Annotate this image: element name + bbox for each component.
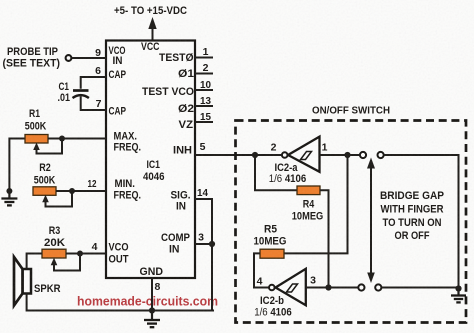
wire probe tip to pin 9 xyxy=(72,57,106,59)
node probe tip terminal circle xyxy=(66,55,72,61)
node junction right bus ground xyxy=(455,285,461,291)
pin 2 stub xyxy=(195,73,213,75)
resistor R4 xyxy=(297,186,320,195)
node junction IC2-a output / R5 feedback xyxy=(344,152,350,158)
ON/OFF SWITCH dashed enclosure xyxy=(236,121,467,323)
R4 labels xyxy=(292,199,324,223)
ground right bus xyxy=(451,289,466,303)
resistor R1 labels xyxy=(25,108,47,133)
op-amp U2a: inverter IC2-a xyxy=(282,137,320,172)
wire pin 6 stub xyxy=(81,77,106,89)
ground center below pin 8 xyxy=(144,311,160,328)
wire IC2-a output down to R5 xyxy=(284,155,348,253)
pin 10 stub xyxy=(195,89,213,91)
node top touch contact left xyxy=(360,152,366,158)
wire R1 wiper arm xyxy=(33,141,62,154)
resistor R3 labels xyxy=(44,225,65,249)
node junction R2 wiper xyxy=(69,188,75,194)
wire R2 to MIN FREQ pin 12 xyxy=(56,190,106,192)
resistor R5 xyxy=(260,249,284,258)
node junction IC2-b output / R4 xyxy=(325,284,331,290)
speaker SPKR xyxy=(14,257,31,306)
node bottom touch contact right xyxy=(375,284,381,290)
wire R3 wiper arm xyxy=(51,256,80,271)
wire IC2-a output to top contact xyxy=(320,154,360,156)
IC1 internal labels xyxy=(109,41,195,278)
node junction ground rail xyxy=(149,307,155,313)
capacitor C1 xyxy=(73,91,89,99)
wire left bus R1 to ground xyxy=(9,139,25,192)
IC2-a name labels xyxy=(269,162,307,185)
wire R1 to MAX FREQ pin xyxy=(48,138,106,140)
wire R4 to IC2-b output node xyxy=(320,190,329,287)
op-amp U2b: inverter IC2-b xyxy=(269,269,306,305)
wire VCC supply arrow xyxy=(148,17,156,41)
op-amp U1 body: IC1 4046 outline xyxy=(106,41,195,279)
C1 value label xyxy=(58,81,71,104)
R5 labels xyxy=(254,224,287,248)
node junction pin3/pin14 xyxy=(209,241,215,247)
resistor R3 (potentiometer) xyxy=(42,249,66,258)
wire R3 left to speaker xyxy=(27,254,42,270)
wire R3 to VCO OUT pin 4 xyxy=(66,253,106,255)
resistor R2 (potentiometer) xyxy=(33,187,56,196)
wire pin 8 GND stub xyxy=(151,278,153,311)
node junction pin5/R4 xyxy=(252,152,258,158)
wire pin 5 INH to IC2-a input xyxy=(195,154,282,156)
wire pin 3 COMP IN stub xyxy=(195,243,212,245)
wire IC2-a input node down to R4 xyxy=(255,155,297,190)
wire speaker to bottom ground rail xyxy=(27,294,214,311)
node junction R3 wiper xyxy=(77,251,83,257)
wire pin 14 SIG IN stub xyxy=(195,199,212,244)
wire bridge-gap indicator arrow xyxy=(367,158,375,284)
wire bottom contact to right bus xyxy=(382,287,459,289)
node top touch contact right xyxy=(378,152,384,158)
wire IC2-b output to bottom contact xyxy=(306,287,358,289)
resistor R1 (potentiometer) xyxy=(25,135,48,144)
wire pin 7 stub xyxy=(81,97,106,111)
wire R5 to IC2-b input xyxy=(254,253,269,287)
node junction left bus R2 xyxy=(6,188,12,194)
node PROBE TIP label xyxy=(3,46,61,70)
ground left under R2 bus xyxy=(1,191,17,205)
pin 15 stub xyxy=(195,121,213,123)
wire pin 3 down to ground rail xyxy=(211,244,213,311)
wire top contact to right bus xyxy=(384,155,458,289)
node bottom touch contact left xyxy=(358,284,364,290)
node BRIDGE GAP note xyxy=(380,190,444,242)
IC2-b name labels xyxy=(254,295,292,319)
pin 1 stub xyxy=(195,57,213,59)
resistor R2 labels xyxy=(34,162,56,187)
wire R2 wiper arm xyxy=(42,194,72,207)
pin 13 stub xyxy=(195,105,213,107)
node junction R1 wiper xyxy=(59,136,65,142)
